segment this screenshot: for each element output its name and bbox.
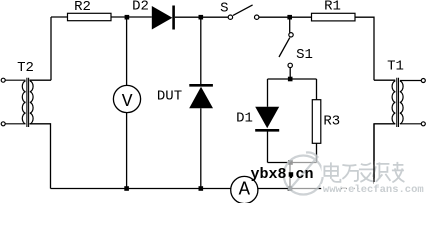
wire voltmeter branch lower	[126, 113, 128, 189]
resistor R3	[312, 100, 340, 144]
node junction middle rail	[288, 77, 293, 82]
svg-text:S: S	[220, 0, 228, 16]
T2 secondary winding	[30, 81, 33, 124]
switch S1	[279, 33, 313, 68]
diode D2	[132, 0, 174, 30]
switch S	[220, 0, 259, 19]
node junction bottom at drop wire	[288, 186, 293, 191]
T2 primary terminal bottom	[1, 122, 5, 126]
T2 primary stub wires	[5, 80, 25, 124]
wire S1 branch upper (top node to S1)	[289, 17, 291, 32]
wire top-left horizontal (top wire from left corner to R2)	[51, 16, 68, 18]
svg-text:D1: D1	[236, 111, 253, 127]
T2 primary terminal top	[1, 78, 5, 82]
node junction top at voltmeter branch	[125, 15, 130, 20]
wire DUT branch lower	[200, 108, 202, 188]
T2 core	[27, 78, 29, 127]
transformer T2	[1, 60, 34, 127]
wire top between switch S and R1	[259, 16, 312, 18]
watermark logo circle (elecfans)	[284, 152, 323, 194]
resistor R1	[312, 0, 356, 21]
wire top between R1 and right corner	[355, 17, 374, 80]
svg-text:R3: R3	[323, 114, 340, 130]
T2 primary winding	[22, 81, 25, 124]
wire DUT branch upper	[200, 17, 202, 84]
node junction lower rail	[288, 160, 293, 165]
node junction bottom at voltmeter branch	[124, 186, 129, 191]
svg-text:A: A	[239, 179, 251, 201]
svg-text:R2: R2	[74, 0, 91, 15]
T1 secondary terminal top	[421, 79, 425, 83]
wire T1 primary top stub	[374, 79, 395, 81]
svg-text:D2: D2	[132, 0, 149, 15]
svg-text:ybx8.cn: ybx8.cn	[250, 166, 313, 183]
svg-text:T2: T2	[17, 60, 34, 76]
wire T2 secondary top stub	[30, 79, 52, 81]
wire right-bottom vertical redrawn over watermark glyphs	[373, 124, 375, 182]
svg-text:www.elecfans.com: www.elecfans.com	[323, 184, 424, 196]
wire voltmeter branch upper	[126, 17, 128, 85]
resistor R2	[68, 0, 112, 21]
wire R3 branch upper	[316, 79, 318, 100]
wire drop from D1/R3 rail to bottom wire	[289, 163, 291, 189]
svg-text:V: V	[122, 92, 133, 112]
wire R3 branch lower	[316, 143, 318, 162]
svg-text:S1: S1	[296, 47, 313, 63]
voltmeter V	[113, 85, 140, 112]
wire D1 branch lower	[267, 131, 269, 163]
T1 secondary terminal bottom	[421, 122, 425, 126]
wire middle rail above D1/R3	[268, 78, 317, 80]
wire D1 branch upper	[267, 79, 269, 107]
watermark site text period emphasis	[289, 172, 294, 177]
wire bottom right (ammeter to right corner)	[258, 188, 374, 190]
diode D1	[236, 107, 279, 131]
svg-text:DUT: DUT	[157, 88, 182, 104]
T1 core	[397, 78, 399, 127]
node junction top at DUT branch	[199, 15, 204, 20]
T1 secondary stub wires	[400, 81, 421, 124]
T1 secondary winding	[400, 81, 403, 124]
ammeter A	[231, 176, 258, 203]
wire left vertical (top corner down to T2)	[50, 17, 52, 80]
node junction top at S1 branch	[287, 15, 292, 20]
wire bottom left (to ammeter)	[51, 188, 231, 190]
wire top between R2 and D2 (through node at x=127)	[111, 16, 152, 18]
wire T2 secondary bottom stub and left-bottom vertical	[30, 124, 51, 189]
wire S1 branch lower (S1 to middle rail)	[289, 68, 291, 80]
T1 primary winding	[392, 81, 395, 124]
node junction bottom at DUT branch	[199, 186, 204, 191]
wire T1 primary bottom stub and right-bottom vertical	[374, 124, 395, 189]
transformer T1	[387, 59, 425, 128]
svg-text:R1: R1	[324, 0, 341, 15]
svg-text:T1: T1	[387, 59, 404, 75]
wire top between D2 and switch S	[175, 16, 228, 18]
diode DUT (device under test)	[157, 85, 213, 108]
watermark chinese text 电子发烧友 (approximated strokes, embossed)	[324, 161, 405, 182]
wire bottom rail below D1/R3	[268, 162, 317, 164]
